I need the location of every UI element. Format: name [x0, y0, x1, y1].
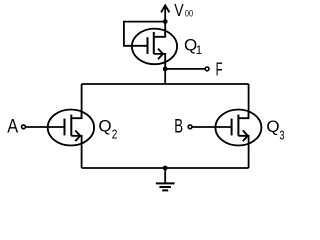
- svg-text:B: B: [174, 115, 183, 137]
- node: gate-drain tie junction dot: [163, 19, 168, 24]
- wire: left rail upper segment (Q2 drain to top rail): [81, 84, 83, 118]
- transistor Q1: [132, 28, 177, 64]
- label Q1: [184, 35, 202, 57]
- svg-text:2: 2: [112, 128, 118, 142]
- label V00: [174, 0, 193, 20]
- wire: right rail lower segment (Q3 source to bottom rail): [248, 146, 250, 169]
- wire: output to terminal F: [165, 68, 204, 70]
- power supply arrow VDD: [161, 5, 169, 21]
- wire: bottom rail: [82, 167, 249, 169]
- svg-text:V: V: [174, 0, 184, 20]
- wire: right rail upper segment (Q3 drain to top rail): [248, 84, 250, 118]
- wire: Q1 gate feedback loop to drain: [124, 22, 165, 46]
- label A: [7, 116, 18, 138]
- wire: top rail: [82, 83, 249, 85]
- wire: input A to Q2 gate: [26, 126, 65, 128]
- node: ground junction dot: [163, 166, 168, 171]
- svg-text:A: A: [7, 116, 18, 138]
- svg-text:00: 00: [185, 7, 193, 18]
- svg-text:F: F: [216, 59, 223, 79]
- label Q3: [266, 117, 284, 143]
- transistor Q3: [215, 110, 261, 146]
- ground: [156, 168, 175, 190]
- terminal F open circle: [205, 67, 209, 71]
- wire: Q1 source down to top rail: [164, 64, 166, 85]
- transistor Q2: [48, 110, 94, 146]
- wire: input B to Q3 gate: [192, 126, 231, 128]
- label F: [216, 59, 223, 79]
- svg-text:Q: Q: [266, 117, 279, 136]
- wire: left rail lower segment (Q2 source to bottom rail): [81, 146, 83, 169]
- wire: Q1 drain to supply: [164, 22, 166, 37]
- terminal A open circle: [22, 125, 26, 129]
- label Q2: [98, 116, 117, 141]
- svg-text:1: 1: [196, 45, 202, 57]
- svg-text:3: 3: [279, 129, 284, 143]
- node F junction dot: [163, 67, 168, 72]
- label B: [174, 115, 183, 137]
- svg-text:Q: Q: [98, 116, 111, 135]
- terminal B open circle: [188, 125, 192, 129]
